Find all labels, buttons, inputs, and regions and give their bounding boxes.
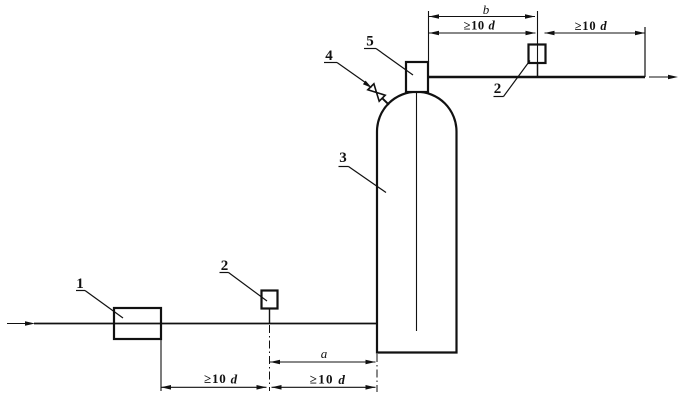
svg-text:b: b (483, 2, 490, 17)
svg-text:3: 3 (339, 150, 347, 166)
svg-text:≥10 d: ≥10 d (204, 371, 238, 386)
svg-text:≥10 d: ≥10 d (575, 19, 608, 33)
svg-text:5: 5 (366, 34, 374, 50)
svg-text:1: 1 (76, 276, 84, 292)
svg-text:a: a (321, 346, 328, 361)
svg-text:4: 4 (325, 48, 333, 64)
svg-text:2: 2 (494, 81, 502, 97)
svg-text:2: 2 (221, 258, 229, 274)
svg-text:≥10 d: ≥10 d (464, 19, 496, 33)
svg-text:≥10 d: ≥10 d (310, 372, 346, 387)
